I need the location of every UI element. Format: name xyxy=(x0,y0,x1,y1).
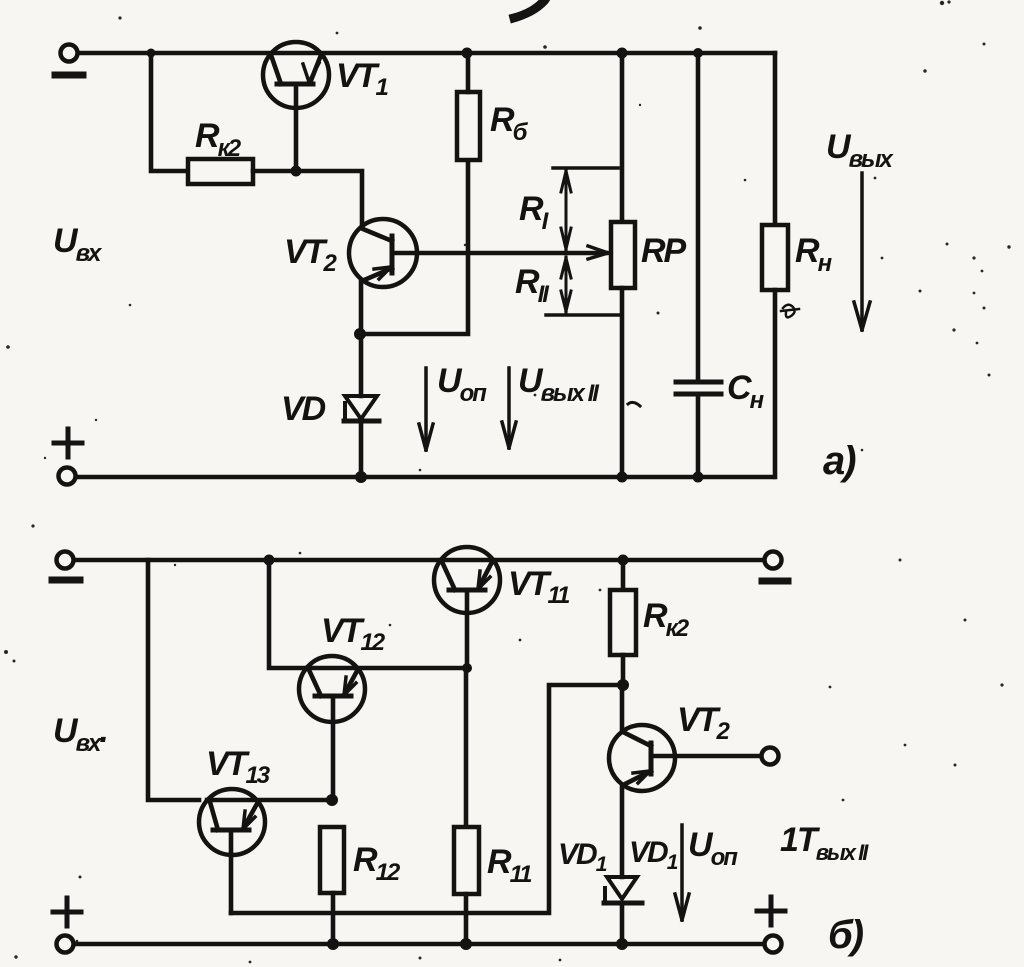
node VT11 base / R11 xyxy=(462,663,472,673)
wire rail branch to VT12 xyxy=(269,560,307,668)
wire RK2 to VT2 base branch xyxy=(253,171,362,227)
node rail/RK2 (b) xyxy=(618,555,629,566)
node rail/RP (a) xyxy=(617,48,628,59)
wire VT13 emitter feedback to RK2 bottom xyxy=(231,685,623,913)
node rail/RB (a) xyxy=(462,48,473,59)
minus sign (a) xyxy=(55,72,83,79)
zener diode VD1 xyxy=(604,877,642,944)
dimension arrow RII xyxy=(561,257,571,312)
arrowhead wiper into RP xyxy=(588,246,608,259)
minus sign left (b) xyxy=(52,577,80,584)
resistor RK2 (a) xyxy=(188,159,253,184)
transistor VT12 xyxy=(299,656,467,800)
node input branch corner xyxy=(147,49,156,58)
node VT2 emitter / VD / RB xyxy=(354,328,366,340)
node VT1 base / RK2 wire xyxy=(291,166,302,177)
arrow Uvyh II (a) xyxy=(502,368,516,448)
terminal plus left (b) xyxy=(57,936,74,953)
arrow Uop (b) xyxy=(675,825,689,920)
wire bottom rail (b) xyxy=(74,942,764,947)
svg-text:RP: RP xyxy=(641,232,687,270)
dimension tick lower (RII) xyxy=(546,313,620,317)
node VD / bottom rail xyxy=(355,471,367,483)
smudge artifact left of Cn xyxy=(628,402,640,406)
node RP bottom rail xyxy=(617,472,628,483)
transistor VT2 (a) xyxy=(349,219,417,287)
node RK2 bottom / VT2 base / feedback xyxy=(617,679,629,691)
node VD1 bottom rail xyxy=(616,938,628,950)
node R11 bottom rail xyxy=(460,938,472,950)
terminal input minus (a) xyxy=(61,45,78,62)
terminal input plus (a) xyxy=(59,468,76,485)
transistor VT11 xyxy=(434,547,500,668)
node rail/VT12 branch xyxy=(264,555,275,566)
wire VT2 collector to output terminal xyxy=(652,754,761,759)
wire RB top to rail xyxy=(466,53,471,92)
terminal VT2 collector output xyxy=(762,748,779,765)
node R12 bottom rail xyxy=(327,938,339,950)
wire input branch down to RK2 xyxy=(151,53,188,171)
wire node to RB bottom xyxy=(360,160,468,334)
arrow Uvyh output (a) xyxy=(854,173,870,330)
smudge artifact below Rn xyxy=(781,305,799,318)
transistor VT2 (b) xyxy=(609,685,675,877)
wire input branch to VT13 base xyxy=(148,560,199,800)
dimension tick upper (RI) xyxy=(553,166,618,170)
terminal output minus (b) xyxy=(765,552,782,569)
arrow Uop (a) xyxy=(419,368,433,450)
svg-text:б): б) xyxy=(828,913,864,957)
resistor RK2 (b) xyxy=(610,560,636,685)
terminal plus right (b) xyxy=(765,936,782,953)
node rail/Cn (a) xyxy=(693,48,703,58)
resistor RB xyxy=(457,92,480,160)
capacitor Cn xyxy=(676,53,721,477)
plus sign right (b) xyxy=(757,897,785,925)
dimension arrow RI xyxy=(561,170,571,250)
plus sign (a) xyxy=(54,429,82,457)
wire VT2 emitter down xyxy=(359,280,364,334)
transistor VT13 xyxy=(199,789,332,913)
wire top rail (a) xyxy=(78,51,775,56)
node Cn bottom rail xyxy=(693,472,704,483)
minus sign right (b) xyxy=(762,578,788,585)
wire top rail (b) xyxy=(74,558,764,563)
potentiometer RP xyxy=(611,53,635,477)
plus sign left (b) xyxy=(53,898,81,926)
svg-text:a): a) xyxy=(823,439,856,483)
transistor VT1 xyxy=(263,42,329,171)
wire VT2 base lead to RP wiper xyxy=(392,251,606,256)
zener diode VD xyxy=(344,334,379,477)
node VT12 emitter / VT13 / R12 xyxy=(326,794,338,806)
terminal input minus (b) xyxy=(57,552,74,569)
resistor Rn xyxy=(762,53,788,477)
resistor R11 xyxy=(454,668,479,944)
svg-text:VD: VD xyxy=(281,390,326,428)
wire bottom rail (a) xyxy=(76,475,773,480)
resistor R12 xyxy=(320,827,344,944)
swash from figure above xyxy=(514,0,553,18)
